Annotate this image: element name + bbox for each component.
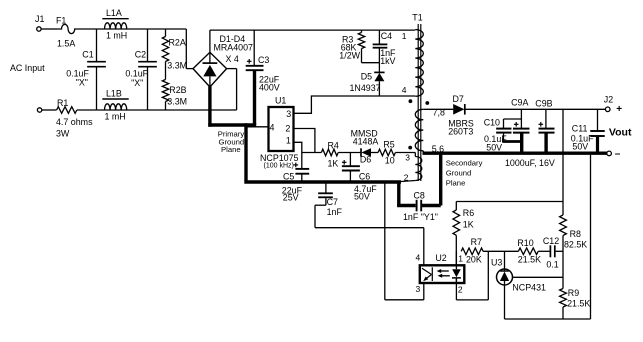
- svg-text:U3: U3: [491, 257, 502, 267]
- svg-text:R5: R5: [383, 140, 394, 150]
- svg-text:C12: C12: [543, 236, 559, 246]
- svg-text:X 4: X 4: [226, 54, 239, 64]
- svg-text:0.1uF: 0.1uF: [125, 69, 148, 79]
- svg-text:3: 3: [405, 153, 410, 163]
- svg-text:1nF "Y1": 1nF "Y1": [403, 212, 438, 222]
- svg-text:3W: 3W: [56, 129, 70, 139]
- svg-text:50V: 50V: [572, 142, 588, 152]
- svg-text:4: 4: [402, 85, 407, 95]
- svg-text:(100 kHz): (100 kHz): [264, 163, 294, 170]
- svg-text:C7: C7: [327, 197, 338, 207]
- svg-text:C2: C2: [135, 50, 146, 60]
- svg-text:10: 10: [385, 156, 395, 166]
- svg-text:1nF: 1nF: [327, 207, 343, 217]
- svg-text:3: 3: [286, 109, 291, 119]
- svg-text:R2B: R2B: [169, 85, 186, 95]
- svg-text:3.3M: 3.3M: [167, 61, 187, 71]
- svg-text:R10: R10: [517, 238, 533, 248]
- svg-text:400V: 400V: [259, 83, 280, 93]
- svg-text:C11: C11: [572, 123, 588, 133]
- svg-text:U1: U1: [275, 96, 286, 106]
- svg-text:T1: T1: [412, 12, 422, 22]
- svg-text:1kV: 1kV: [380, 56, 395, 66]
- svg-text:F1: F1: [56, 16, 66, 26]
- svg-text:R2A: R2A: [169, 37, 186, 47]
- svg-text:Vout: Vout: [609, 126, 632, 138]
- svg-text:50V: 50V: [486, 142, 502, 152]
- svg-text:R8: R8: [570, 229, 581, 239]
- svg-text:C3: C3: [258, 55, 269, 65]
- svg-text:Plane: Plane: [446, 178, 466, 187]
- svg-text:"X": "X": [76, 77, 88, 87]
- svg-text:C9B: C9B: [535, 99, 552, 109]
- svg-text:2: 2: [458, 284, 463, 294]
- svg-text:1: 1: [458, 253, 463, 263]
- svg-text:D5: D5: [361, 71, 372, 81]
- svg-text:R4: R4: [328, 140, 339, 150]
- svg-text:C1: C1: [82, 50, 93, 60]
- svg-text:J2: J2: [604, 94, 613, 104]
- svg-text:1/2W: 1/2W: [339, 51, 360, 61]
- svg-text:NCP431: NCP431: [512, 282, 546, 292]
- svg-text:1.5A: 1.5A: [57, 39, 75, 49]
- svg-text:3: 3: [416, 284, 421, 294]
- svg-text:R1: R1: [57, 98, 68, 108]
- svg-text:C10: C10: [484, 117, 500, 127]
- svg-text:2: 2: [404, 172, 409, 182]
- svg-text:2: 2: [285, 124, 290, 134]
- svg-text:3.3M: 3.3M: [167, 96, 187, 106]
- svg-text:1N4937: 1N4937: [350, 83, 381, 93]
- svg-text:4: 4: [416, 252, 421, 262]
- svg-text:4148A: 4148A: [353, 137, 379, 147]
- svg-text:"X": "X": [131, 78, 143, 88]
- svg-text:4: 4: [270, 123, 275, 133]
- svg-text:Secondary: Secondary: [446, 158, 483, 167]
- svg-text:260T3: 260T3: [448, 127, 473, 137]
- svg-text:J1: J1: [35, 14, 44, 24]
- svg-text:L1B: L1B: [106, 88, 122, 98]
- svg-text:C4: C4: [381, 31, 392, 41]
- svg-text:5,6: 5,6: [432, 144, 444, 154]
- svg-text:Ground: Ground: [446, 168, 472, 177]
- svg-text:AC Input: AC Input: [10, 63, 45, 73]
- svg-text:1: 1: [286, 136, 291, 146]
- svg-text:1K: 1K: [328, 159, 339, 169]
- svg-text:50V: 50V: [354, 191, 370, 201]
- svg-text:21.5K: 21.5K: [567, 299, 590, 309]
- svg-text:4.7 ohms: 4.7 ohms: [56, 117, 93, 127]
- svg-text:NCP1075: NCP1075: [260, 153, 299, 163]
- svg-text:–: –: [615, 149, 621, 160]
- svg-text:MRA4007: MRA4007: [214, 42, 254, 52]
- svg-text:1K: 1K: [463, 220, 474, 230]
- svg-text:R7: R7: [471, 237, 482, 247]
- svg-text:1000uF, 16V: 1000uF, 16V: [505, 158, 555, 168]
- svg-text:21.5K: 21.5K: [518, 254, 541, 264]
- svg-text:20K: 20K: [466, 254, 482, 264]
- svg-text:L1A: L1A: [106, 8, 122, 18]
- svg-text:R6: R6: [463, 208, 474, 218]
- svg-text:U2: U2: [435, 253, 446, 263]
- svg-text:25V: 25V: [283, 193, 299, 203]
- svg-text:R9: R9: [568, 288, 579, 298]
- svg-text:C9A: C9A: [511, 98, 528, 108]
- svg-text:1 mH: 1 mH: [105, 112, 126, 122]
- svg-text:Plane: Plane: [221, 145, 241, 154]
- svg-text:1 mH: 1 mH: [106, 31, 127, 41]
- svg-text:C5: C5: [283, 171, 294, 181]
- svg-text:C6: C6: [359, 171, 370, 181]
- svg-text:1: 1: [402, 31, 407, 41]
- svg-text:82.5K: 82.5K: [564, 239, 587, 249]
- svg-text:+: +: [616, 104, 622, 115]
- svg-text:7,8: 7,8: [433, 107, 445, 117]
- svg-text:C8: C8: [414, 190, 425, 200]
- svg-text:D6: D6: [360, 155, 371, 165]
- svg-text:D7: D7: [453, 94, 464, 104]
- svg-text:0.1: 0.1: [546, 259, 558, 269]
